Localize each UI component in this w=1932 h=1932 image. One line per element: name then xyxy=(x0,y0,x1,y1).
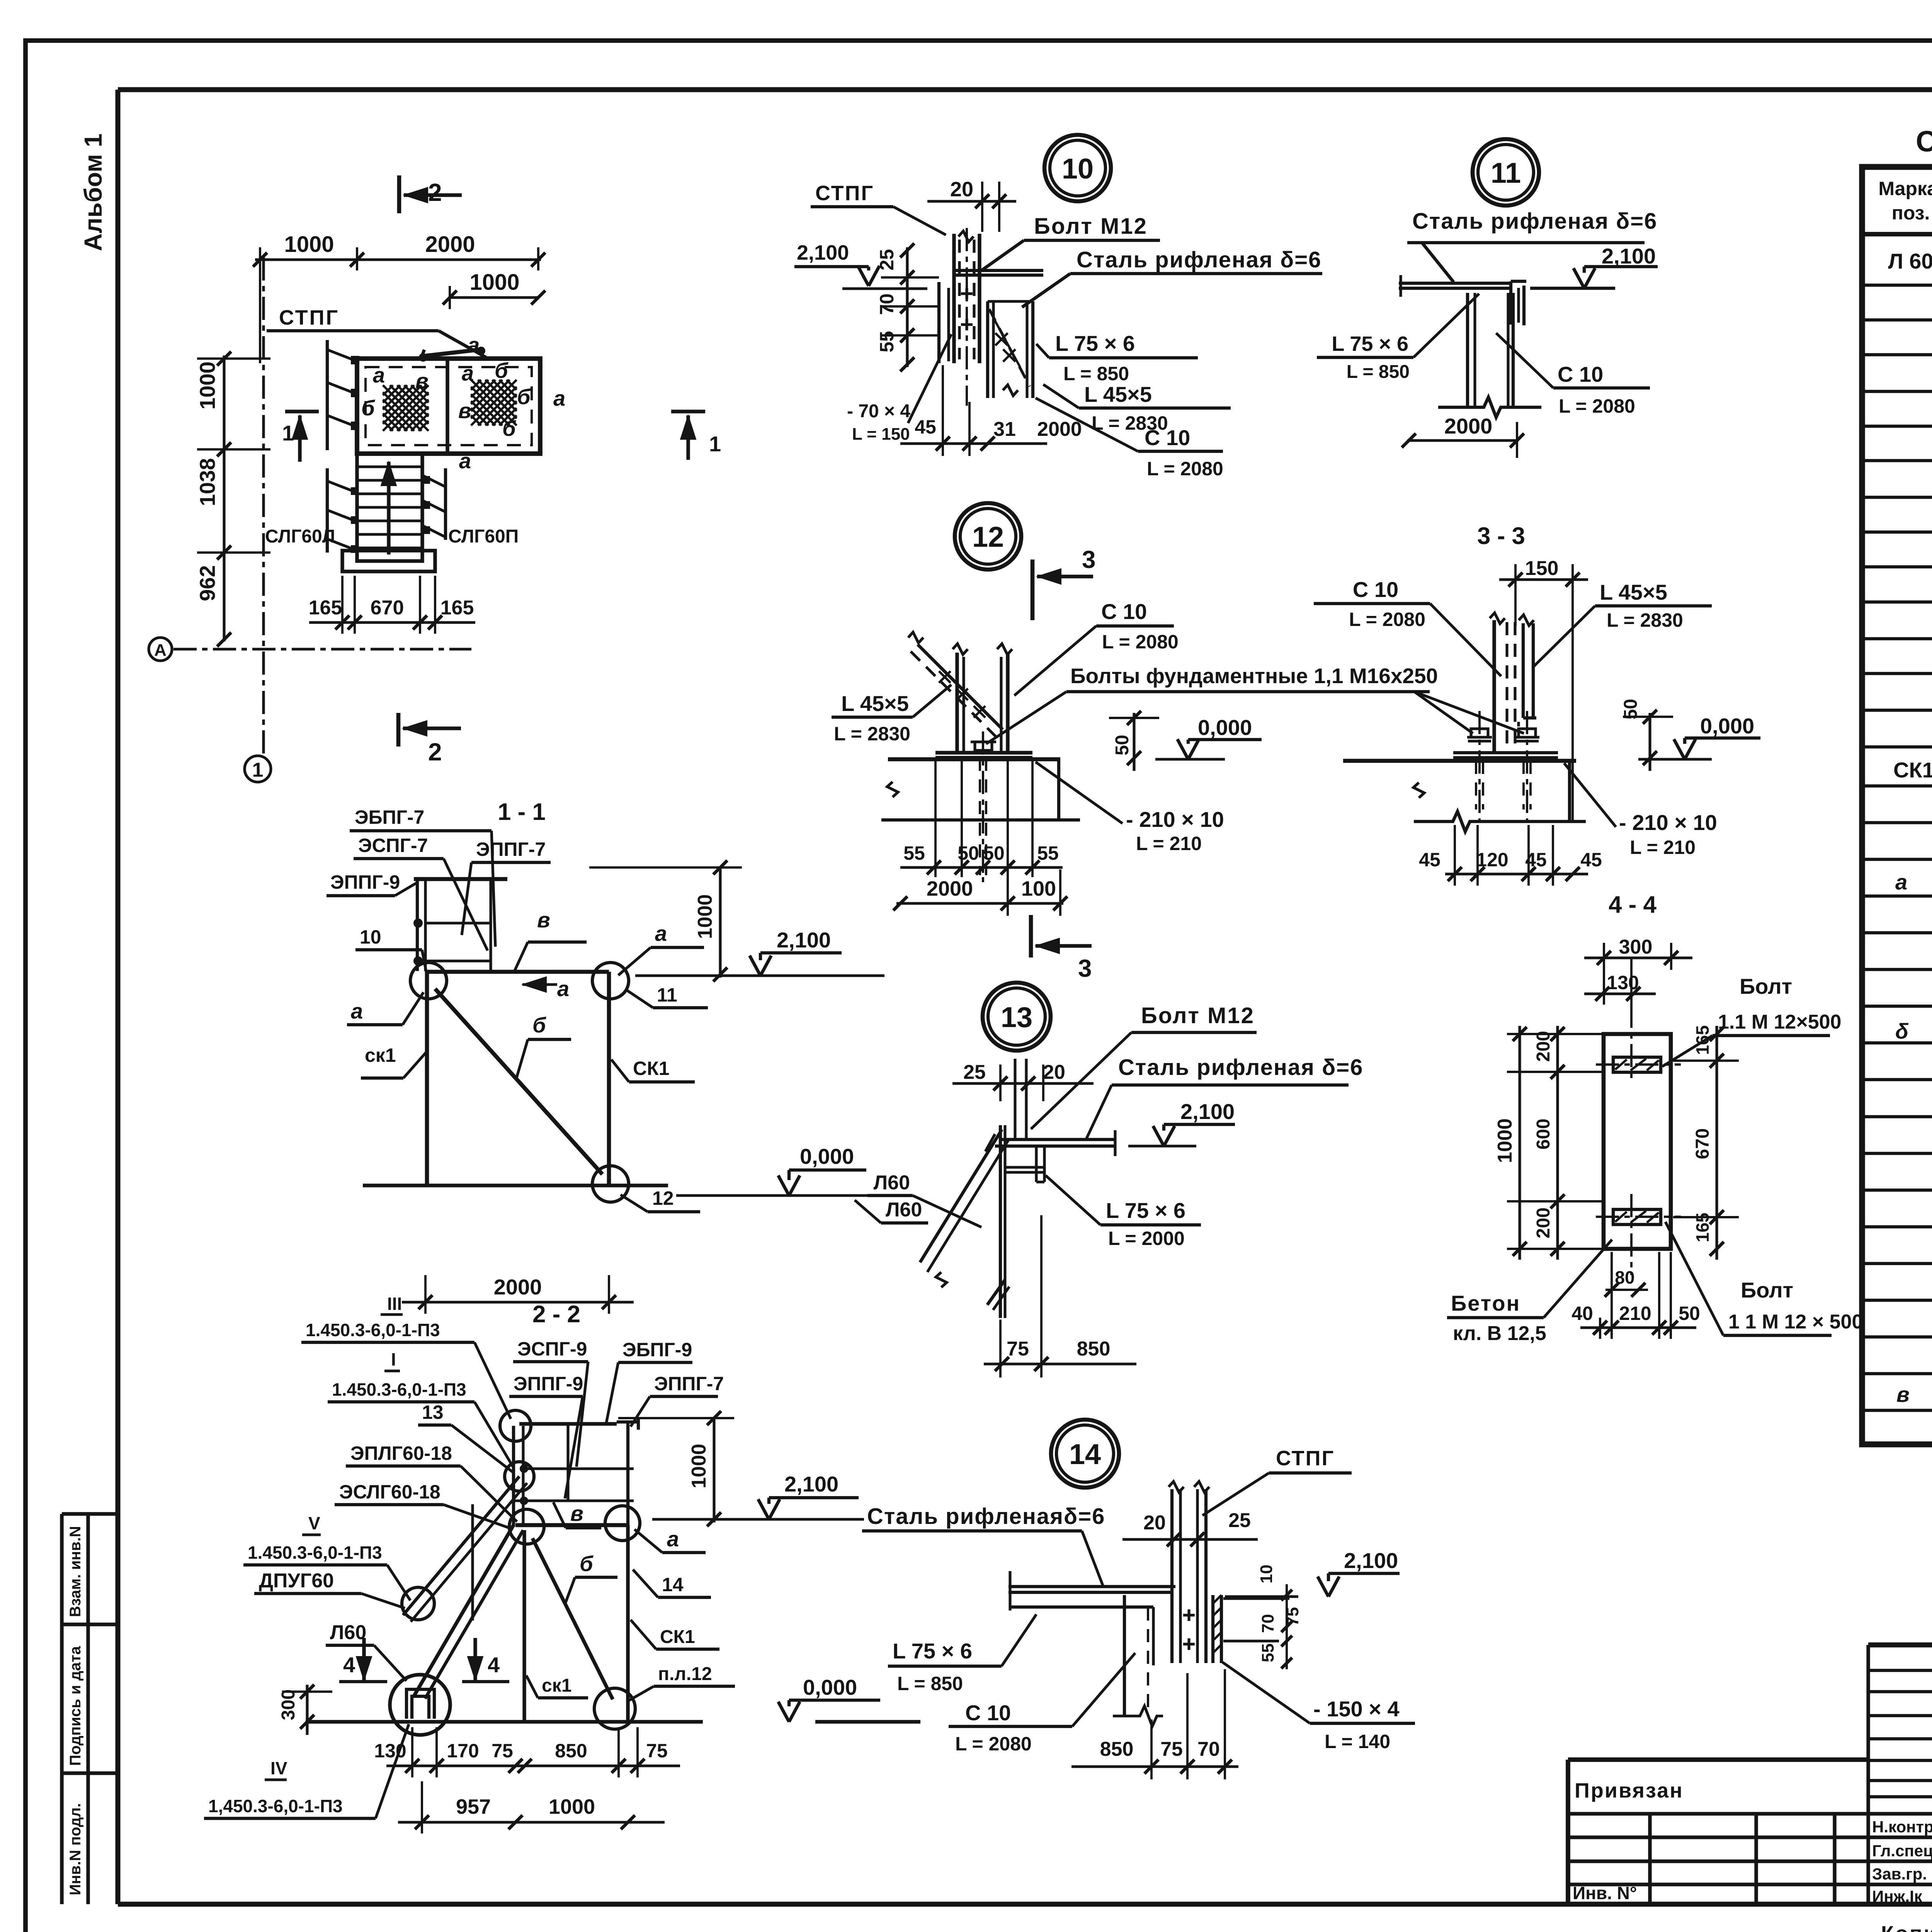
svg-text:п.л.12: п.л.12 xyxy=(658,1664,712,1684)
svg-text:850: 850 xyxy=(555,1740,587,1762)
svg-text:50: 50 xyxy=(957,842,979,864)
svg-text:Инв.N подл.: Инв.N подл. xyxy=(67,1803,84,1895)
svg-text:2 - 2: 2 - 2 xyxy=(532,1301,580,1328)
svg-text:3: 3 xyxy=(1078,954,1092,982)
svg-text:ск1: ск1 xyxy=(365,1044,396,1066)
svg-text:С 10: С 10 xyxy=(1101,599,1147,624)
svg-text:Инж.Iк: Инж.Iк xyxy=(1872,1887,1923,1905)
svg-text:в: в xyxy=(570,1501,583,1526)
svg-text:1000: 1000 xyxy=(688,1444,710,1488)
svg-text:ЭПЛГ60-18: ЭПЛГ60-18 xyxy=(350,1442,452,1464)
svg-text:IV: IV xyxy=(270,1758,287,1778)
svg-text:210: 210 xyxy=(1619,1303,1651,1324)
svg-text:10: 10 xyxy=(1257,1565,1276,1583)
svg-text:СТПГ: СТПГ xyxy=(1276,1447,1335,1470)
svg-text:31: 31 xyxy=(993,418,1016,440)
svg-text:L 45×5: L 45×5 xyxy=(841,691,909,716)
svg-text:А: А xyxy=(154,641,167,660)
svg-text:а: а xyxy=(557,976,569,1001)
svg-text:ЭСПГ-9: ЭСПГ-9 xyxy=(517,1338,587,1360)
svg-text:V: V xyxy=(308,1513,320,1533)
svg-text:а: а xyxy=(667,1527,679,1551)
svg-text:50: 50 xyxy=(983,842,1005,864)
svg-text:13: 13 xyxy=(1001,1001,1032,1033)
svg-text:300: 300 xyxy=(278,1689,299,1720)
svg-text:1 - 1: 1 - 1 xyxy=(498,799,546,825)
svg-text:2: 2 xyxy=(428,179,442,206)
svg-text:165: 165 xyxy=(440,597,474,619)
svg-text:L 75 × 6: L 75 × 6 xyxy=(893,1639,972,1663)
svg-text:L = 2830: L = 2830 xyxy=(1607,609,1683,631)
svg-text:кл. В 12,5: кл. В 12,5 xyxy=(1453,1322,1546,1345)
svg-text:ЭСПГ-7: ЭСПГ-7 xyxy=(358,835,428,856)
svg-text:а: а xyxy=(373,363,385,387)
svg-text:Болт: Болт xyxy=(1740,974,1792,998)
svg-text:14: 14 xyxy=(1069,1438,1101,1470)
svg-text:1.450.3-6,0-1-П3: 1.450.3-6,0-1-П3 xyxy=(306,1320,440,1340)
svg-text:Л60: Л60 xyxy=(886,1199,922,1221)
svg-text:Л60: Л60 xyxy=(874,1172,910,1194)
svg-text:С 10: С 10 xyxy=(1353,577,1398,602)
svg-text:а: а xyxy=(553,386,565,410)
svg-text:СЛГ60П: СЛГ60П xyxy=(448,526,519,547)
svg-text:Бетон: Бетон xyxy=(1451,1291,1520,1315)
svg-text:130: 130 xyxy=(1607,972,1639,993)
svg-text:1000: 1000 xyxy=(195,361,219,410)
svg-text:ЭСЛГ60-18: ЭСЛГ60-18 xyxy=(339,1481,440,1503)
svg-text:55: 55 xyxy=(1259,1643,1277,1662)
svg-text:L = 2080: L = 2080 xyxy=(1559,395,1635,417)
svg-text:2,100: 2,100 xyxy=(777,928,831,952)
svg-text:ЭППГ-7: ЭППГ-7 xyxy=(476,838,546,860)
svg-text:13: 13 xyxy=(422,1401,444,1423)
svg-text:ДПУГ60: ДПУГ60 xyxy=(259,1570,334,1592)
svg-text:Гл.спец: Гл.спец xyxy=(1872,1842,1932,1860)
svg-text:0,000: 0,000 xyxy=(1700,714,1754,738)
svg-text:50: 50 xyxy=(1679,1303,1700,1324)
svg-text:1000: 1000 xyxy=(549,1795,595,1818)
svg-text:Зав.гр.: Зав.гр. xyxy=(1872,1865,1927,1883)
svg-text:40: 40 xyxy=(1571,1303,1593,1324)
svg-text:1 1 М 12 × 500: 1 1 М 12 × 500 xyxy=(1728,1311,1863,1333)
svg-text:СЛГ60Л: СЛГ60Л xyxy=(265,526,335,547)
svg-text:45: 45 xyxy=(915,416,936,438)
svg-text:ЭППГ-9: ЭППГ-9 xyxy=(514,1373,583,1395)
svg-text:1: 1 xyxy=(282,421,294,445)
svg-text:L = 850: L = 850 xyxy=(1063,363,1129,384)
svg-text:2000: 2000 xyxy=(425,232,475,257)
svg-text:Сталь рифленая δ=6: Сталь рифленая δ=6 xyxy=(1412,209,1657,234)
svg-text:3 - 3: 3 - 3 xyxy=(1477,523,1525,549)
svg-text:ск1: ск1 xyxy=(542,1675,571,1696)
svg-text:2,100: 2,100 xyxy=(1180,1099,1235,1124)
svg-text:Взам. инв.N: Взам. инв.N xyxy=(67,1526,84,1617)
svg-text:а: а xyxy=(462,361,474,385)
svg-text:L 75 × 6: L 75 × 6 xyxy=(1332,332,1408,355)
svg-text:а: а xyxy=(655,921,667,946)
svg-text:С 10: С 10 xyxy=(1558,362,1603,386)
svg-text:СК1: СК1 xyxy=(660,1627,695,1647)
svg-text:I: I xyxy=(391,1349,396,1369)
svg-text:L = 2080: L = 2080 xyxy=(955,1733,1032,1755)
svg-text:б: б xyxy=(495,358,509,383)
svg-text:2000: 2000 xyxy=(1037,418,1082,440)
svg-text:ЭБПГ-7: ЭБПГ-7 xyxy=(355,806,424,828)
svg-text:L 75 × 6: L 75 × 6 xyxy=(1106,1198,1185,1223)
svg-text:Сталь рифленая δ=6: Сталь рифленая δ=6 xyxy=(1077,247,1321,272)
svg-text:0,000: 0,000 xyxy=(1198,715,1252,740)
svg-text:2: 2 xyxy=(428,738,442,766)
svg-text:14: 14 xyxy=(662,1574,684,1595)
svg-text:2000: 2000 xyxy=(1444,414,1493,438)
svg-text:1000: 1000 xyxy=(284,232,334,257)
svg-text:75: 75 xyxy=(1160,1738,1183,1760)
svg-text:25: 25 xyxy=(1228,1509,1251,1532)
svg-text:11: 11 xyxy=(1491,157,1521,189)
svg-text:1.450.3-6,0-1-П3: 1.450.3-6,0-1-П3 xyxy=(248,1543,382,1563)
svg-text:10: 10 xyxy=(360,926,381,948)
svg-text:200: 200 xyxy=(1533,1031,1554,1062)
svg-text:L = 850: L = 850 xyxy=(897,1673,963,1694)
svg-text:300: 300 xyxy=(1619,936,1653,958)
svg-text:Л 60: Л 60 xyxy=(1888,249,1932,273)
svg-text:С 10: С 10 xyxy=(965,1701,1011,1725)
svg-text:1: 1 xyxy=(709,432,721,456)
svg-text:165: 165 xyxy=(1692,1025,1713,1055)
svg-text:2,100: 2,100 xyxy=(797,241,849,264)
svg-text:Инв. N°: Инв. N° xyxy=(1573,1883,1637,1903)
svg-text:Марка,: Марка, xyxy=(1878,178,1932,199)
svg-text:- 210 × 10: - 210 × 10 xyxy=(1619,810,1717,835)
svg-text:б: б xyxy=(532,1013,546,1037)
svg-text:в: в xyxy=(458,398,471,423)
svg-text:120: 120 xyxy=(1476,849,1508,871)
svg-text:12: 12 xyxy=(972,521,1004,553)
svg-text:СТПГ: СТПГ xyxy=(815,182,874,205)
svg-text:Болты фундаментные 1,1 М16х250: Болты фундаментные 1,1 М16х250 xyxy=(1070,664,1438,688)
svg-text:ЭБПГ-9: ЭБПГ-9 xyxy=(622,1339,692,1361)
svg-text:45: 45 xyxy=(1525,849,1547,871)
svg-text:670: 670 xyxy=(1692,1128,1713,1159)
svg-text:б: б xyxy=(580,1551,594,1576)
svg-text:1.1 М 12×500: 1.1 М 12×500 xyxy=(1718,1011,1841,1033)
svg-text:- 210 × 10: - 210 × 10 xyxy=(1126,807,1224,832)
svg-text:2000: 2000 xyxy=(494,1275,542,1299)
svg-text:4 - 4: 4 - 4 xyxy=(1609,891,1657,918)
svg-text:СК1: СК1 xyxy=(1893,758,1932,782)
svg-text:Сталь рифленая δ=6: Сталь рифленая δ=6 xyxy=(1118,1055,1363,1080)
svg-text:962: 962 xyxy=(195,565,219,601)
svg-text:в: в xyxy=(1896,1382,1910,1406)
svg-text:150: 150 xyxy=(1525,557,1559,580)
svg-text:Болт М12: Болт М12 xyxy=(1141,1003,1255,1028)
svg-text:Л60: Л60 xyxy=(330,1621,366,1644)
svg-text:Н.контр.: Н.контр. xyxy=(1872,1818,1932,1836)
svg-text:а: а xyxy=(1895,870,1907,894)
svg-text:957: 957 xyxy=(456,1795,491,1818)
svg-text:75: 75 xyxy=(1007,1338,1029,1360)
svg-text:L = 150: L = 150 xyxy=(852,425,910,444)
svg-text:20: 20 xyxy=(1043,1061,1065,1083)
svg-text:2000: 2000 xyxy=(927,877,973,900)
svg-text:25: 25 xyxy=(876,249,898,270)
svg-text:δ: δ xyxy=(1895,1019,1909,1043)
svg-text:L 75 × 6: L 75 × 6 xyxy=(1055,331,1135,355)
svg-text:L = 140: L = 140 xyxy=(1325,1731,1390,1752)
svg-text:75: 75 xyxy=(492,1740,513,1762)
svg-text:а: а xyxy=(351,999,363,1023)
svg-text:45: 45 xyxy=(1580,849,1602,871)
svg-text:б: б xyxy=(502,416,516,440)
svg-text:20: 20 xyxy=(1143,1512,1166,1534)
svg-text:Болт М12: Болт М12 xyxy=(1034,214,1148,239)
svg-text:С 10: С 10 xyxy=(1145,425,1190,450)
svg-text:Подпись и дата: Подпись и дата xyxy=(67,1646,84,1766)
svg-text:50: 50 xyxy=(1112,735,1133,755)
svg-text:10: 10 xyxy=(1062,153,1094,185)
svg-text:130: 130 xyxy=(374,1740,406,1762)
svg-text:б: б xyxy=(361,396,375,420)
svg-text:Копировал: Копировал xyxy=(1881,1922,1932,1932)
svg-text:45: 45 xyxy=(1419,849,1440,871)
svg-text:а: а xyxy=(459,449,471,473)
svg-text:Болт: Болт xyxy=(1741,1278,1793,1302)
svg-text:Спецификация элементов площа: Спецификация элементов площадки 1 xyxy=(1916,125,1932,158)
svg-text:4: 4 xyxy=(343,1653,355,1677)
svg-text:12: 12 xyxy=(652,1187,674,1209)
svg-text:L 45×5: L 45×5 xyxy=(1084,382,1152,406)
svg-text:600: 600 xyxy=(1533,1119,1554,1150)
svg-text:1000: 1000 xyxy=(694,894,716,939)
svg-text:в: в xyxy=(415,369,429,393)
svg-text:1,450.3-6,0-1-П3: 1,450.3-6,0-1-П3 xyxy=(208,1796,343,1816)
svg-text:- 150 × 4: - 150 × 4 xyxy=(1313,1697,1400,1721)
svg-text:70: 70 xyxy=(1197,1738,1220,1760)
svg-text:670: 670 xyxy=(371,597,404,619)
svg-text:ЭППГ-9: ЭППГ-9 xyxy=(330,871,400,893)
svg-text:СТПГ: СТПГ xyxy=(279,306,339,329)
svg-text:L = 2080: L = 2080 xyxy=(1102,631,1179,653)
svg-text:ЭППГ-7: ЭППГ-7 xyxy=(654,1373,724,1395)
svg-text:850: 850 xyxy=(1077,1338,1111,1360)
svg-text:L 45×5: L 45×5 xyxy=(1600,580,1667,604)
svg-text:70: 70 xyxy=(1259,1614,1277,1633)
svg-text:L = 2080: L = 2080 xyxy=(1147,458,1223,480)
svg-text:3: 3 xyxy=(1082,546,1096,573)
svg-text:1.450.3-6,0-1-П3: 1.450.3-6,0-1-П3 xyxy=(332,1379,466,1400)
svg-text:200: 200 xyxy=(1533,1207,1554,1238)
svg-text:- 70 × 4: - 70 × 4 xyxy=(847,401,910,422)
svg-text:1000: 1000 xyxy=(1494,1118,1516,1163)
svg-text:а: а xyxy=(468,333,480,357)
svg-text:L = 210: L = 210 xyxy=(1136,833,1202,854)
svg-text:Привязан: Привязан xyxy=(1575,1779,1684,1802)
svg-text:850: 850 xyxy=(1100,1738,1134,1760)
svg-text:1000: 1000 xyxy=(469,270,519,295)
svg-text:2,100: 2,100 xyxy=(1344,1548,1398,1573)
svg-text:0,000: 0,000 xyxy=(803,1675,857,1699)
svg-text:L = 2080: L = 2080 xyxy=(1349,609,1425,630)
svg-text:L = 210: L = 210 xyxy=(1630,837,1696,858)
svg-text:III: III xyxy=(387,1294,402,1314)
svg-text:поз.: поз. xyxy=(1892,202,1930,224)
svg-text:0,000: 0,000 xyxy=(800,1144,854,1168)
svg-text:L = 2830: L = 2830 xyxy=(834,723,910,745)
svg-text:1038: 1038 xyxy=(195,458,219,506)
svg-text:L = 850: L = 850 xyxy=(1347,362,1410,382)
svg-text:Сталь рифленаяδ=6: Сталь рифленаяδ=6 xyxy=(867,1504,1105,1529)
svg-text:75: 75 xyxy=(646,1740,668,1762)
svg-text:Альбом 1: Альбом 1 xyxy=(79,133,107,251)
svg-text:СК1: СК1 xyxy=(633,1058,669,1079)
svg-text:4: 4 xyxy=(488,1653,500,1677)
svg-text:2,100: 2,100 xyxy=(1602,244,1656,268)
svg-text:11: 11 xyxy=(657,984,677,1006)
svg-text:25: 25 xyxy=(963,1061,986,1083)
svg-text:70: 70 xyxy=(876,293,898,315)
svg-text:165: 165 xyxy=(309,597,342,619)
svg-text:55: 55 xyxy=(876,331,898,352)
svg-text:L = 2000: L = 2000 xyxy=(1108,1228,1185,1249)
svg-text:в: в xyxy=(537,908,550,932)
svg-text:100: 100 xyxy=(1021,877,1056,900)
svg-text:2,100: 2,100 xyxy=(784,1472,838,1496)
svg-text:1: 1 xyxy=(252,759,264,781)
svg-text:170: 170 xyxy=(447,1740,479,1762)
svg-text:55: 55 xyxy=(903,842,925,864)
svg-text:55: 55 xyxy=(1037,842,1059,864)
svg-text:20: 20 xyxy=(950,178,973,201)
svg-text:б: б xyxy=(517,384,531,409)
